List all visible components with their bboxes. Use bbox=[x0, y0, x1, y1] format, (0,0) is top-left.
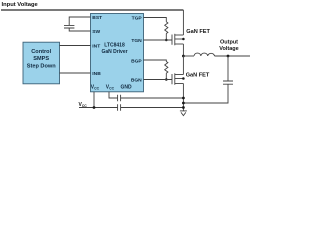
node junction VCC1 supply bbox=[93, 106, 96, 109]
resistor R2 bottom gate bbox=[165, 62, 168, 74]
svg-text:Output: Output bbox=[220, 40, 238, 46]
svg-text:VCC: VCC bbox=[79, 102, 88, 108]
svg-text:Step Down: Step Down bbox=[27, 63, 56, 69]
svg-text:Input Voltage: Input Voltage bbox=[2, 2, 39, 8]
svg-text:Control: Control bbox=[31, 49, 51, 55]
svg-text:SMPS: SMPS bbox=[33, 56, 49, 62]
wire VCC supply line bbox=[79, 107, 117, 109]
wire BST to bootstrap cap bbox=[69, 17, 90, 25]
node junction upper bypass ground bbox=[182, 97, 185, 100]
wire C3 to ground node bbox=[121, 97, 184, 99]
svg-text:GaN FET: GaN FET bbox=[186, 73, 210, 79]
svg-text:INB: INB bbox=[92, 71, 101, 77]
svg-text:GaN FET: GaN FET bbox=[186, 29, 210, 35]
op-amp U2 Control SMPS Step Down block bbox=[23, 42, 60, 84]
wire input rail VIN bbox=[1, 9, 183, 11]
wire INT control to U1 bbox=[60, 45, 91, 47]
wire SW node to inductor bbox=[183, 55, 194, 57]
wire Q1 source to SW node bbox=[182, 44, 184, 56]
wire BGP to gate resistor bbox=[144, 60, 167, 62]
node SW junction bbox=[182, 55, 185, 58]
wire VCC1 pin drop bbox=[93, 92, 95, 108]
wire C4 to ground node bbox=[121, 107, 184, 109]
op-amp U1 LTC8418 GaN Driver block bbox=[91, 14, 144, 92]
transistor Q2 bottom GaN FET bbox=[172, 73, 183, 85]
svg-text:LTC8418: LTC8418 bbox=[104, 42, 125, 48]
inductor L1 bbox=[194, 53, 215, 56]
capacitor C4 VCC bypass lower bbox=[118, 104, 121, 111]
wire VCC2 pin to bypass cap C3 bbox=[109, 92, 117, 98]
node junction output return ground bbox=[182, 102, 185, 105]
wire INB control to U1 bbox=[60, 72, 91, 74]
wire Q2 source to ground bbox=[182, 84, 184, 111]
svg-text:Voltage: Voltage bbox=[219, 46, 238, 52]
wire C2 to ground rail bbox=[183, 84, 228, 103]
node output junction bbox=[227, 55, 230, 58]
node junction R2 BGN bbox=[165, 78, 168, 81]
svg-text:BGN: BGN bbox=[131, 78, 142, 84]
svg-text:BGP: BGP bbox=[131, 58, 142, 64]
wire Q2 drain to SW node bbox=[182, 56, 184, 75]
node Q1 body-source tie bbox=[182, 38, 185, 41]
resistor R1 top gate bbox=[165, 22, 168, 34]
capacitor C3 VCC bypass upper bbox=[118, 95, 121, 102]
node junction lower bypass ground bbox=[182, 106, 185, 109]
svg-text:GND: GND bbox=[121, 85, 133, 91]
wire R1 to TGN node bbox=[165, 34, 167, 41]
svg-text:SW: SW bbox=[92, 29, 100, 35]
wire R2 to BGN node bbox=[165, 73, 167, 79]
capacitor C1 bootstrap bbox=[64, 25, 74, 28]
wire Q1 drain to input rail bbox=[182, 10, 184, 35]
svg-text:BST: BST bbox=[92, 15, 102, 21]
wire TGN to Q1 gate bbox=[144, 39, 173, 41]
capacitor C2 output bbox=[223, 81, 233, 84]
ground bbox=[180, 111, 187, 116]
wire BGN to Q2 gate bbox=[144, 79, 173, 81]
svg-text:GaN Driver: GaN Driver bbox=[101, 49, 127, 55]
svg-text:TGN: TGN bbox=[131, 38, 142, 44]
wire TGP to gate resistor bbox=[144, 18, 167, 22]
wire bootstrap cap to SW bbox=[69, 28, 90, 31]
svg-text:TGP: TGP bbox=[132, 16, 143, 22]
svg-text:INT: INT bbox=[92, 44, 100, 50]
node Q2 body-source tie bbox=[182, 77, 185, 80]
transistor Q1 top GaN FET bbox=[172, 34, 183, 46]
wire output to C2 bbox=[227, 56, 229, 81]
wire inductor to output bbox=[215, 55, 251, 57]
node junction R1 TGN bbox=[165, 39, 168, 42]
